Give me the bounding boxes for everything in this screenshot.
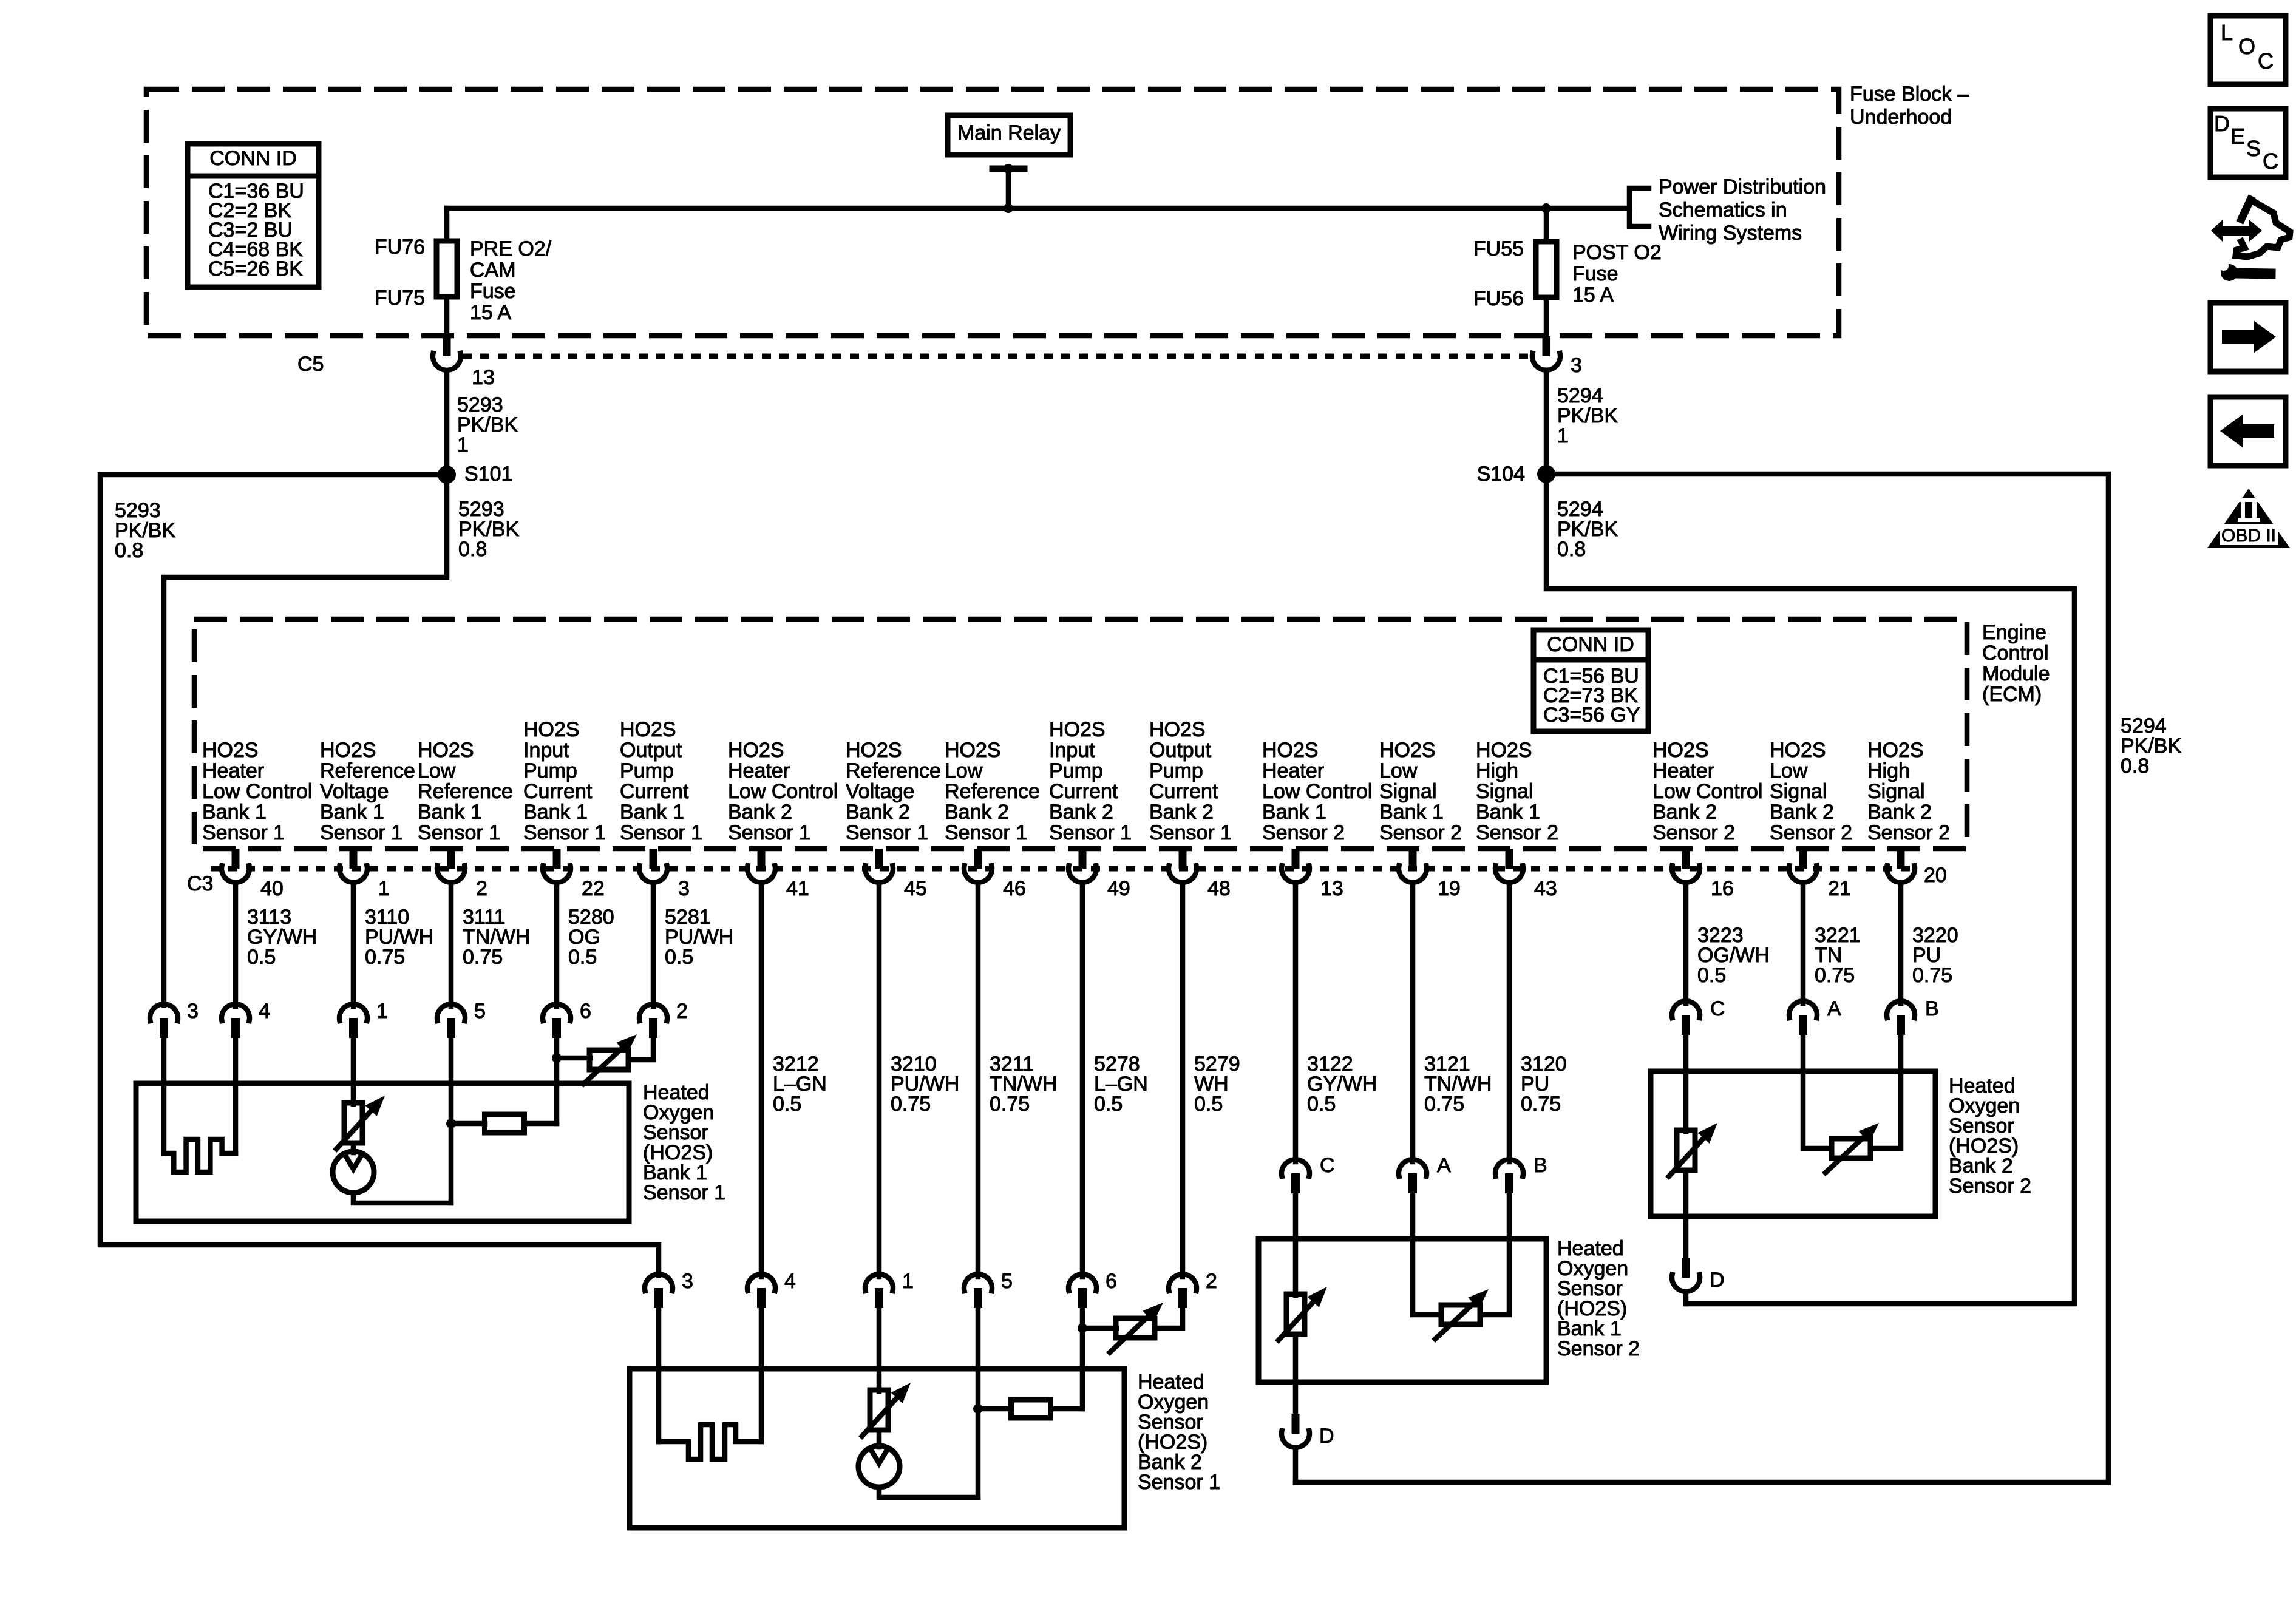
HO2S B2S1 connector pin 1: [865, 1270, 914, 1308]
svg-text:2: 2: [1206, 1270, 1217, 1293]
wire from ECM pin 20: [1898, 883, 1904, 1003]
heater element (B2S1): [659, 1425, 761, 1459]
wire 5293 PK/BK 1 (C5 to S101): [447, 370, 518, 475]
wire pinA into box (B1S2): [1413, 1193, 1441, 1315]
ECM pin 43 label: [1476, 739, 1558, 844]
svg-text:0.5: 0.5: [1094, 1093, 1123, 1116]
ECM pin 22 connector: [543, 849, 605, 900]
variable resistor pin1 (B1S1): [336, 1096, 385, 1149]
svg-text:CAM: CAM: [470, 259, 516, 282]
svg-text:HO2S: HO2S: [1770, 739, 1826, 762]
fuse block - underhood (dashed box): [146, 89, 1839, 336]
wire from ECM pin 41: [759, 883, 764, 1276]
wire from ECM pin 48: [1180, 883, 1186, 1276]
sensor cell (B1S1): [333, 1151, 374, 1193]
icon back arrow box: [2210, 397, 2286, 466]
wire pin4 into box (B2S1): [759, 1308, 764, 1442]
ECM pin 3 connector: [639, 849, 690, 900]
connector D (B1S2): [1282, 1414, 1334, 1448]
svg-text:0.5: 0.5: [1194, 1093, 1223, 1116]
wire resistor to cell (B2S1): [877, 1430, 882, 1447]
svg-text:Pump: Pump: [523, 759, 577, 782]
svg-text:S: S: [2246, 136, 2261, 161]
wire 5294 PK/BK 0.8 inner branch (S104 to HO2S B2S2 pin D): [1546, 474, 2074, 1304]
svg-text:0.75: 0.75: [891, 1093, 931, 1116]
svg-text:1: 1: [457, 433, 469, 456]
wire pinB into box (B1S2): [1480, 1193, 1509, 1315]
wire pin3 into box (B1S1): [161, 1038, 167, 1153]
svg-text:Low: Low: [1770, 759, 1808, 782]
svg-text:HO2S: HO2S: [1049, 718, 1106, 741]
pump current varistor to pin2 (B1S1): [557, 1034, 653, 1084]
wire resistor to cell (B1S1): [351, 1143, 356, 1153]
ECM pin 40 label: [202, 739, 312, 844]
svg-text:HO2S: HO2S: [1379, 739, 1436, 762]
svg-text:Bank 2: Bank 2: [728, 801, 792, 824]
svg-text:13: 13: [1320, 877, 1343, 900]
wire label (pin 41): [773, 1053, 827, 1116]
svg-text:HO2S: HO2S: [1652, 739, 1709, 762]
HO2S B2S2 connector pin B: [1887, 997, 1939, 1035]
wire label (pin 19): [1424, 1053, 1492, 1116]
wire to fuse FU76: [444, 208, 450, 241]
wire label (pin 43): [1521, 1053, 1567, 1116]
wire from ECM pin 2: [449, 883, 454, 1006]
svg-text:Sensor 1: Sensor 1: [643, 1181, 725, 1204]
svg-text:Wiring Systems: Wiring Systems: [1659, 222, 1802, 245]
wire label (pin 21): [1815, 924, 1861, 987]
ECM pin 2 connector: [437, 849, 487, 900]
svg-text:Bank 1: Bank 1: [523, 801, 588, 824]
wire label (pin 45): [891, 1053, 959, 1116]
svg-text:Heater: Heater: [1652, 759, 1714, 782]
wire D to ground loop (B2S2): [1683, 1292, 1689, 1304]
svg-text:0.5: 0.5: [568, 946, 597, 969]
svg-text:Sensor 1: Sensor 1: [620, 821, 702, 844]
HO2S B2S1 connector pin 4: [747, 1270, 796, 1308]
svg-text:Power Distribution: Power Distribution: [1659, 175, 1826, 198]
connector D (B2S2): [1672, 1258, 1725, 1292]
ECM pin 21 connector: [1789, 849, 1851, 900]
svg-text:19: 19: [1438, 877, 1461, 900]
HO2S bank2 sensor2 label: [1949, 1074, 2031, 1198]
wire from ECM pin 13: [1293, 883, 1299, 1162]
junction pin6 (B2S1): [1078, 1323, 1087, 1333]
ECM pin 2 label: [418, 739, 513, 844]
svg-text:Input: Input: [523, 739, 569, 762]
wire label (pin 20): [1912, 924, 1958, 987]
svg-text:Signal: Signal: [1379, 780, 1437, 803]
svg-text:Low: Low: [418, 759, 456, 782]
svg-text:Signal: Signal: [1476, 780, 1533, 803]
wire from ECM pin 19: [1410, 883, 1416, 1162]
svg-text:Bank 1: Bank 1: [320, 801, 384, 824]
svg-text:Voltage: Voltage: [846, 780, 914, 803]
svg-text:Module: Module: [1982, 662, 2050, 685]
reference resistor (B2S1): [978, 1400, 1082, 1418]
svg-text:3: 3: [682, 1270, 693, 1293]
connector C5 pin 13: [297, 336, 495, 389]
HO2S B2S1 connector pin 6: [1068, 1270, 1117, 1308]
svg-text:S104: S104: [1477, 463, 1525, 486]
svg-text:High: High: [1867, 759, 1910, 782]
svg-text:4: 4: [784, 1270, 796, 1293]
junction pin5 (B1S1): [446, 1119, 456, 1128]
svg-text:46: 46: [1003, 877, 1026, 900]
svg-text:C3: C3: [187, 872, 213, 895]
svg-text:D: D: [2214, 111, 2230, 136]
svg-text:Bank 1: Bank 1: [620, 801, 684, 824]
svg-text:15 A: 15 A: [470, 301, 511, 324]
svg-text:S101: S101: [464, 463, 512, 486]
svg-text:(ECM): (ECM): [1982, 683, 2042, 706]
wire D to ground loop (B1S2): [1293, 1448, 1299, 1482]
wire heater to box bottom (B2S2): [1683, 1170, 1689, 1258]
svg-text:0.5: 0.5: [773, 1093, 801, 1116]
svg-text:16: 16: [1711, 877, 1734, 900]
svg-text:Bank 2: Bank 2: [945, 801, 1009, 824]
svg-text:3: 3: [187, 1000, 199, 1023]
ECM pin 48 label: [1149, 718, 1232, 844]
svg-text:Heater: Heater: [202, 759, 264, 782]
svg-text:Sensor 2: Sensor 2: [1262, 821, 1345, 844]
HO2S bank1 sensor1 label: [643, 1081, 725, 1204]
svg-text:Bank 2: Bank 2: [1049, 801, 1113, 824]
svg-text:C5=26 BK: C5=26 BK: [208, 257, 303, 280]
svg-text:POST O2: POST O2: [1572, 241, 1662, 264]
svg-text:2: 2: [676, 1000, 688, 1023]
svg-text:0.8: 0.8: [115, 539, 143, 562]
wire from ECM pin 45: [877, 883, 882, 1276]
wire 5293 PK/BK 0.8 left branch (S101 to HO2S B2S1 pin 3): [100, 475, 659, 1275]
variable resistor pin1 (B2S1): [862, 1383, 911, 1436]
HO2S B1S2 connector pin B: [1495, 1154, 1547, 1193]
svg-text:B: B: [1925, 997, 1939, 1020]
fuse block connector dotted line: [463, 354, 1530, 359]
ECM pin 41 connector: [747, 849, 809, 900]
svg-text:Bank 1: Bank 1: [1262, 801, 1326, 824]
svg-text:22: 22: [582, 877, 605, 900]
svg-text:49: 49: [1107, 877, 1130, 900]
signal varistor (B2S2): [1826, 1123, 1879, 1173]
svg-text:Bank 2: Bank 2: [1652, 801, 1717, 824]
svg-text:1: 1: [376, 1000, 388, 1023]
junction pin5 (B2S1): [973, 1404, 983, 1414]
power distribution bracket: [1629, 175, 1826, 245]
wire cell to pin5 column (B1S1): [353, 1193, 451, 1203]
HO2S B2S2 connector pin A: [1789, 997, 1841, 1035]
svg-text:C: C: [1710, 997, 1725, 1020]
svg-text:0.5: 0.5: [1697, 964, 1726, 987]
ECM pin 20 connector: [1887, 849, 1947, 887]
HO2S B1S2 connector pin C: [1282, 1154, 1335, 1193]
wire 5293 PK/BK 0.8 down branch (S101 to HO2S B1S1 pin 3): [164, 475, 519, 1005]
wire from ECM pin 21: [1801, 883, 1806, 1003]
svg-text:O: O: [2238, 34, 2255, 59]
svg-text:2: 2: [476, 877, 487, 900]
svg-text:Current: Current: [1049, 780, 1118, 803]
svg-text:Reference: Reference: [945, 780, 1040, 803]
ECM pin 22 label: [523, 718, 606, 844]
svg-text:C: C: [1320, 1154, 1335, 1177]
svg-text:0.75: 0.75: [1815, 964, 1855, 987]
icon OBD II triangle: [2207, 489, 2290, 548]
svg-text:Control: Control: [1982, 642, 2049, 665]
svg-text:C3=56 GY: C3=56 GY: [1543, 703, 1640, 727]
fuse FU76/FU75 PRE O2: [375, 236, 552, 324]
svg-text:HO2S: HO2S: [728, 739, 784, 762]
icon DESC box: [2210, 109, 2286, 177]
wire label (pin 40): [247, 906, 317, 969]
svg-text:Low: Low: [945, 759, 983, 782]
ECM pin 43 connector: [1495, 849, 1557, 900]
HO2S B1S1 connector pin 5: [437, 1000, 486, 1038]
svg-text:21: 21: [1828, 877, 1851, 900]
svg-text:Sensor 2: Sensor 2: [1557, 1337, 1640, 1360]
pump current varistor to pin2 (B2S1): [1082, 1303, 1183, 1352]
HO2S B2S1 connector pin 2: [1169, 1270, 1217, 1308]
wire pin1 into box (B2S1): [877, 1308, 882, 1391]
wire label (pin 13): [1307, 1053, 1377, 1116]
svg-text:45: 45: [904, 877, 927, 900]
ECM pin 16 label: [1652, 739, 1762, 844]
svg-text:0.8: 0.8: [2121, 754, 2149, 778]
wire pin3 into box (B2S1): [656, 1308, 662, 1442]
wire pin5 into box (B1S1): [449, 1038, 454, 1203]
ECM label: [1982, 621, 2050, 706]
svg-text:HO2S: HO2S: [320, 739, 376, 762]
HO2S B1S1 connector pin 2: [639, 1000, 688, 1038]
wire from ECM pin 1: [351, 883, 356, 1006]
wire 5294 PK/BK 1 (3 to S104): [1546, 370, 1618, 474]
svg-text:6: 6: [1106, 1270, 1117, 1293]
svg-text:CONN ID: CONN ID: [1547, 633, 1634, 656]
svg-text:0.75: 0.75: [990, 1093, 1030, 1116]
wire pinC into box (B2S2): [1683, 1035, 1689, 1131]
svg-text:0.75: 0.75: [1912, 964, 1952, 987]
svg-text:Sensor 2: Sensor 2: [1949, 1175, 2031, 1198]
svg-text:0.75: 0.75: [463, 946, 503, 969]
C3 connector dotted line: [187, 869, 1915, 895]
ECM pin 41 label: [728, 739, 838, 844]
svg-text:Bank 2: Bank 2: [1867, 801, 1932, 824]
svg-text:HO2S: HO2S: [1476, 739, 1532, 762]
svg-text:CONN ID: CONN ID: [209, 147, 297, 170]
svg-text:HO2S: HO2S: [418, 739, 474, 762]
svg-text:Sensor 2: Sensor 2: [1770, 821, 1852, 844]
svg-text:5: 5: [474, 1000, 486, 1023]
wire from ECM pin 3: [651, 883, 656, 1006]
HO2S bank1 sensor2 box: [1258, 1239, 1546, 1382]
svg-text:6: 6: [580, 1000, 591, 1023]
fuse block label: [1850, 83, 1969, 129]
wire from ECM pin 16: [1683, 883, 1689, 1003]
svg-text:Bank 1: Bank 1: [1476, 801, 1540, 824]
svg-text:Low Control: Low Control: [1652, 780, 1762, 803]
svg-text:13: 13: [472, 366, 495, 389]
ECM pin 45 connector: [865, 849, 927, 900]
svg-text:HO2S: HO2S: [620, 718, 676, 741]
svg-text:Pump: Pump: [1149, 759, 1203, 782]
svg-text:0.75: 0.75: [1424, 1093, 1464, 1116]
ECM pin 49 label: [1049, 718, 1132, 844]
svg-text:Sensor 2: Sensor 2: [1652, 821, 1735, 844]
svg-text:Sensor 1: Sensor 1: [945, 821, 1027, 844]
CONN ID table (fuse block): [188, 144, 319, 287]
main relay stub: [993, 164, 1024, 208]
svg-text:Bank 2: Bank 2: [1149, 801, 1214, 824]
junction post-o2 branch: [1541, 203, 1551, 213]
svg-text:Sensor 1: Sensor 1: [728, 821, 810, 844]
svg-text:C: C: [2263, 149, 2278, 174]
svg-text:0.8: 0.8: [458, 538, 487, 561]
wire label (pin 22): [568, 906, 614, 969]
svg-text:Signal: Signal: [1770, 780, 1827, 803]
wire cell to pin5 column (B2S1): [879, 1487, 978, 1497]
ECM pin 20 label: [1867, 739, 1950, 844]
svg-text:Underhood: Underhood: [1850, 106, 1952, 129]
ECM pin 49 connector: [1068, 849, 1130, 900]
wire label (pin 49): [1094, 1053, 1148, 1116]
junction main relay: [1004, 203, 1013, 213]
ECM pin 3 label: [620, 718, 702, 844]
wire from ECM pin 22: [554, 883, 560, 1006]
icon LOC box: [2210, 16, 2286, 84]
wire pin5 into box (B2S1): [976, 1308, 981, 1497]
svg-text:E: E: [2230, 124, 2245, 149]
HO2S bank1 sensor2 label: [1557, 1237, 1640, 1360]
svg-text:D: D: [1710, 1269, 1725, 1292]
svg-text:1: 1: [378, 877, 390, 900]
wire from ECM pin 40: [233, 883, 239, 1006]
svg-text:Low Control: Low Control: [728, 780, 838, 803]
wire pinA into box (B2S2): [1803, 1035, 1832, 1148]
HO2S B1S2 connector pin A: [1399, 1154, 1451, 1193]
svg-text:High: High: [1476, 759, 1518, 782]
wire FU75 to C5: [444, 297, 450, 337]
svg-text:OBD II: OBD II: [2221, 526, 2276, 546]
svg-text:1: 1: [902, 1270, 914, 1293]
svg-text:0.5: 0.5: [665, 946, 693, 969]
wire pin6 into box (B2S1): [1080, 1308, 1085, 1409]
ECM pin 19 label: [1379, 739, 1462, 844]
svg-text:Engine: Engine: [1982, 621, 2046, 644]
ECM pin 13 connector: [1282, 849, 1343, 900]
svg-text:HO2S: HO2S: [1262, 739, 1319, 762]
svg-text:3: 3: [678, 877, 690, 900]
svg-text:C: C: [2258, 49, 2274, 73]
sensor cell (B2S1): [858, 1446, 900, 1487]
svg-text:HO2S: HO2S: [846, 739, 902, 762]
svg-text:Sensor 1: Sensor 1: [1149, 821, 1232, 844]
splice S104: [1477, 463, 1555, 486]
wire B+ feed bus: [447, 206, 1629, 211]
signal varistor (B1S2): [1435, 1289, 1489, 1339]
svg-text:Output: Output: [1149, 739, 1212, 762]
svg-text:HO2S: HO2S: [202, 739, 259, 762]
icon schematic/wrench: [2211, 200, 2290, 281]
svg-text:B: B: [1533, 1154, 1547, 1177]
svg-text:43: 43: [1534, 877, 1557, 900]
wire pin6 into box (B1S1): [554, 1038, 560, 1124]
ECM pin 46 connector: [964, 849, 1026, 900]
svg-text:15 A: 15 A: [1572, 283, 1614, 307]
svg-text:0.8: 0.8: [1557, 538, 1586, 561]
wire FU56 to connector 3: [1544, 297, 1549, 336]
svg-text:0.5: 0.5: [1307, 1093, 1336, 1116]
wire pin4 into box (B1S1): [233, 1038, 239, 1153]
svg-text:Sensor 1: Sensor 1: [523, 821, 606, 844]
svg-text:HO2S: HO2S: [523, 718, 580, 741]
fuse FU55/FU56 POST O2: [1473, 237, 1662, 310]
svg-text:Bank 1: Bank 1: [418, 801, 482, 824]
svg-text:Reference: Reference: [846, 759, 941, 782]
junction pin6 (B1S1): [552, 1053, 562, 1063]
svg-text:Reference: Reference: [418, 780, 513, 803]
svg-text:Sensor 1: Sensor 1: [320, 821, 402, 844]
svg-text:Current: Current: [620, 780, 689, 803]
wire from ECM pin 46: [976, 883, 981, 1276]
HO2S B2S1 connector pin 3: [645, 1270, 693, 1308]
svg-text:Sensor 2: Sensor 2: [1867, 821, 1950, 844]
ECM pin 1 connector: [339, 849, 390, 900]
connector pin 3 (fuse block right): [1532, 336, 1582, 377]
ECM pin 16 connector: [1672, 849, 1734, 900]
svg-text:Bank 1: Bank 1: [202, 801, 267, 824]
wire label (pin 16): [1697, 924, 1770, 987]
svg-text:Sensor 1: Sensor 1: [1049, 821, 1132, 844]
svg-text:Heater: Heater: [1262, 759, 1324, 782]
svg-text:Current: Current: [523, 780, 593, 803]
wire label (pin 48): [1194, 1053, 1240, 1116]
svg-text:Input: Input: [1049, 739, 1095, 762]
wire pin1 into box (B1S1): [351, 1038, 356, 1104]
svg-text:HO2S: HO2S: [945, 739, 1001, 762]
svg-text:L: L: [2221, 20, 2233, 45]
wire label (pin 3): [665, 906, 733, 969]
ECM pin 21 label: [1770, 739, 1852, 844]
svg-text:1: 1: [1557, 424, 1569, 447]
wire 5294 PK/BK 0.8 outer branch (S104 to HO2S B1S2 pin D): [1296, 474, 2181, 1482]
svg-text:Heater: Heater: [728, 759, 790, 782]
svg-text:40: 40: [260, 877, 284, 900]
svg-text:3: 3: [1571, 354, 1582, 377]
HO2S B2S2 connector pin C: [1672, 997, 1725, 1035]
svg-text:Main Relay: Main Relay: [957, 121, 1061, 144]
icon forward arrow box: [2210, 303, 2286, 371]
svg-text:FU56: FU56: [1473, 287, 1524, 310]
svg-text:Bank 2: Bank 2: [846, 801, 910, 824]
ECM pin 40 connector: [222, 849, 284, 900]
HO2S B1S1 connector pin 4: [222, 1000, 270, 1038]
svg-text:Signal: Signal: [1867, 780, 1925, 803]
svg-text:20: 20: [1924, 864, 1947, 887]
svg-text:Bank 1: Bank 1: [1379, 801, 1444, 824]
wire label (pin 1): [365, 906, 433, 969]
HO2S B1S1 connector pin 3: [150, 1000, 199, 1038]
wire from ECM pin 49: [1080, 883, 1085, 1276]
svg-text:Fuse: Fuse: [470, 280, 516, 303]
svg-text:Sensor 1: Sensor 1: [418, 821, 500, 844]
svg-text:Output: Output: [620, 739, 682, 762]
svg-text:FU55: FU55: [1473, 237, 1524, 260]
svg-text:0.75: 0.75: [1521, 1093, 1561, 1116]
svg-text:41: 41: [786, 877, 809, 900]
Main Relay box: [948, 115, 1070, 155]
ECM pin 19 connector: [1399, 849, 1461, 900]
ECM pin 13 label: [1262, 739, 1372, 844]
svg-text:Sensor 1: Sensor 1: [846, 821, 928, 844]
